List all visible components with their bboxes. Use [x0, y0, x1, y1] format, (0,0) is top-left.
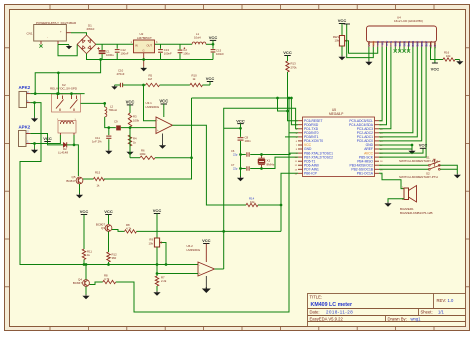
svg-text:SWITCH-MOMENTARY-PTH: SWITCH-MOMENTARY-PTH — [399, 175, 438, 179]
svg-text:C9: C9 — [114, 120, 118, 124]
svg-text:-: - — [47, 37, 48, 40]
svg-text:LL4148: LL4148 — [58, 151, 68, 155]
svg-text:100k: 100k — [133, 118, 140, 122]
svg-text:100n: 100n — [245, 139, 252, 143]
svg-text:VCC: VCC — [126, 100, 135, 105]
svg-text:LM393DG: LM393DG — [146, 105, 160, 109]
svg-text:VCC: VCC — [159, 99, 168, 104]
svg-text:PB1-OC1A: PB1-OC1A — [357, 172, 374, 176]
svg-text:KM409 LC meter: KM409 LC meter — [311, 302, 353, 308]
svg-text:APK2: APK2 — [19, 85, 31, 90]
svg-text:2W10: 2W10 — [87, 27, 95, 31]
svg-text:TITLE:: TITLE: — [310, 295, 323, 300]
svg-text:100nF: 100nF — [121, 51, 129, 55]
svg-text:VCC: VCC — [153, 208, 162, 213]
svg-text:100u: 100u — [183, 51, 190, 55]
svg-text:VCC: VCC — [206, 76, 215, 81]
svg-text:2.2k: 2.2k — [161, 279, 167, 283]
svg-text:470nF: 470nF — [117, 72, 125, 76]
svg-text:LM393DG: LM393DG — [187, 248, 201, 252]
svg-text:10k: 10k — [446, 54, 451, 58]
svg-text:270k: 270k — [291, 65, 298, 69]
svg-text:RELAY-DC_5V-SPD: RELAY-DC_5V-SPD — [50, 87, 78, 91]
svg-text:APK2: APK2 — [19, 125, 31, 130]
svg-text:VCC: VCC — [209, 35, 218, 40]
svg-text:VCC: VCC — [43, 136, 52, 141]
svg-text:Q3: Q3 — [101, 226, 105, 230]
svg-text:4.7k: 4.7k — [126, 226, 132, 230]
svg-text:G: G — [143, 49, 145, 53]
svg-text:10k: 10k — [334, 39, 339, 43]
svg-text:22p: 22p — [233, 153, 238, 157]
svg-text:10uH: 10uH — [194, 36, 201, 40]
svg-text:22p: 22p — [233, 167, 238, 171]
svg-text:R15: R15 — [95, 170, 101, 174]
svg-text:2018-11-28: 2018-11-28 — [326, 310, 353, 315]
svg-text:C7: C7 — [231, 163, 235, 167]
svg-text:EasyEDA V5.9.22: EasyEDA V5.9.22 — [310, 316, 344, 321]
svg-text:1M: 1M — [148, 77, 153, 81]
svg-text:360: 360 — [112, 256, 117, 260]
svg-text:100nF: 100nF — [164, 51, 172, 55]
svg-text:REV:: REV: — [437, 298, 447, 303]
svg-text:Date:: Date: — [310, 310, 320, 315]
svg-text:100nF: 100nF — [216, 52, 224, 56]
svg-text:10k: 10k — [250, 200, 255, 204]
svg-text:1/1: 1/1 — [438, 310, 444, 315]
svg-text:BC847: BC847 — [66, 179, 76, 183]
svg-text:16x2 LCD (HD44780): 16x2 LCD (HD44780) — [394, 19, 423, 23]
svg-text:VCC: VCC — [283, 50, 292, 55]
svg-text:790uH: 790uH — [109, 108, 117, 112]
svg-text:E: E — [389, 41, 393, 43]
svg-text:-: - — [157, 119, 158, 123]
svg-text:VCC: VCC — [104, 209, 113, 214]
svg-text:VCC: VCC — [419, 143, 428, 148]
svg-text:wng1: wng1 — [411, 316, 422, 321]
svg-text:C6: C6 — [231, 149, 235, 153]
svg-text:LM7805CT: LM7805CT — [137, 36, 152, 40]
svg-text:MEGA8-P: MEGA8-P — [329, 112, 343, 116]
svg-text:OUT: OUT — [147, 44, 153, 48]
svg-text:1.0: 1.0 — [448, 298, 454, 303]
svg-text:BUZZER-KMB1375-12B: BUZZER-KMB1375-12B — [400, 211, 433, 215]
svg-text:-: - — [199, 263, 200, 267]
svg-text:10k: 10k — [148, 241, 153, 245]
svg-text:SWITCH-MOMENTARY-PTH: SWITCH-MOMENTARY-PTH — [399, 159, 438, 163]
svg-text:VCC: VCC — [338, 18, 347, 23]
svg-text:PB0-ICP: PB0-ICP — [304, 172, 318, 176]
svg-text:VCC: VCC — [80, 209, 89, 214]
svg-text:CN1: CN1 — [26, 32, 32, 36]
svg-text:1000u: 1000u — [106, 53, 114, 57]
svg-text:VCC: VCC — [202, 238, 211, 243]
svg-text:8MHz: 8MHz — [267, 163, 275, 167]
svg-text:4.7k: 4.7k — [104, 277, 110, 281]
svg-text:RS: RS — [380, 41, 384, 45]
svg-text:1nF 2%: 1nF 2% — [92, 140, 102, 144]
svg-text:VCC: VCC — [236, 118, 245, 123]
svg-text:BC847: BC847 — [73, 281, 83, 285]
svg-text:Sheet:: Sheet: — [421, 310, 433, 315]
svg-text:100k: 100k — [140, 152, 147, 156]
svg-text:Drawn By:: Drawn By: — [388, 316, 407, 321]
svg-text:IN: IN — [135, 44, 138, 48]
svg-text:VCC: VCC — [431, 67, 440, 72]
